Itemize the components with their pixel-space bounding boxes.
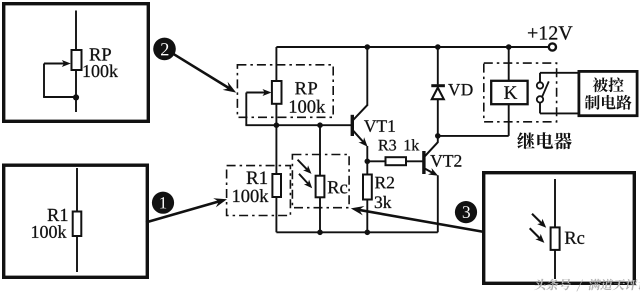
label VD (448, 84, 472, 96)
junction dot: Rc top at base rail (317, 122, 323, 128)
relay contact upper terminal (537, 82, 543, 88)
wire: rail down to RP top (275, 47, 277, 81)
wire: VT1 emitter down (366, 146, 368, 161)
light arrow 2 at Rc (inset) (530, 228, 545, 243)
label R3 1k (378, 139, 419, 150)
wire: node to R3 (367, 160, 385, 162)
label controlled circuit line 2 (Chinese) (585, 95, 632, 110)
resistor R1 (inset) body (73, 212, 82, 237)
label Rc (328, 181, 347, 193)
dashed box around relay (484, 63, 557, 122)
relay contact lower terminal (537, 96, 543, 102)
VT1 emitter diagonal with arrow (353, 131, 367, 147)
junction dot: VD/VT2/relay node (435, 133, 441, 139)
callout circle 3 (455, 201, 477, 223)
VT2 emitter diagonal with arrow (425, 168, 438, 176)
junction dot: wiper to lower lead (73, 94, 79, 100)
wire: RP inset vertical lead (75, 11, 77, 51)
label RP (295, 82, 317, 94)
relay contact lever (542, 81, 549, 96)
label R2 (375, 177, 394, 189)
diode VD cathode bar (431, 84, 445, 87)
wire: VD top lead (437, 47, 439, 84)
junction dot: relay coil at rail (506, 44, 512, 50)
wire: R3 to VT2 base (406, 160, 423, 162)
wire: node down to R2 (366, 161, 368, 174)
diode VD triangle (432, 88, 444, 100)
photoresistor Rc body (316, 176, 325, 198)
wire: R1 inset upper lead (76, 168, 78, 212)
wire: lower contact to load (540, 103, 578, 114)
junction dot: RP bottom at base rail (274, 122, 280, 128)
wire: RP wiper down (245, 93, 247, 126)
relay coil K box (491, 81, 527, 104)
dashed box around R1 (227, 166, 291, 216)
wire: RP inset lower lead (75, 70, 77, 112)
resistor R3 body (386, 157, 407, 165)
wire: R1 inset lower lead (76, 236, 78, 272)
wire: VD bottom lead (437, 99, 439, 136)
dashed box around RP (237, 65, 333, 118)
wire: VT1 base rail (245, 124, 351, 126)
wiper arrow of RP (inset) (44, 60, 71, 67)
label K (504, 86, 517, 98)
transistor VT1 base bar (351, 115, 354, 136)
callout arrow 3 to Rc dashed box (351, 206, 483, 232)
label Rc (inset) (565, 232, 584, 244)
inset box: Rc detail (484, 173, 635, 284)
wire: VT2 collector up (437, 136, 439, 142)
wire: wiper loop vertical (43, 64, 45, 98)
transistor VT2 base bar (422, 151, 425, 174)
callout circle 1 (152, 192, 174, 214)
light arrow 2 at Rc (299, 174, 312, 189)
label controlled circuit line 1 (Chinese) (593, 77, 624, 92)
junction dot: VT1 collector at rail (365, 44, 371, 50)
label VT2 (430, 155, 461, 167)
wire: rail down to relay coil top (508, 47, 510, 81)
label 3k (R2) (375, 196, 392, 208)
wire: down to R1 (275, 125, 277, 174)
junction dot: Rc at bottom rail (317, 230, 323, 236)
wire: R1 to bottom rail (275, 197, 277, 232)
resistor R1 body (272, 174, 281, 197)
watermark text (534, 279, 640, 292)
potentiometer RP body (272, 81, 282, 104)
label 100k (R1) (233, 189, 268, 202)
wire: VT1 base stub (350, 124, 352, 126)
light arrow 1 at Rc (298, 160, 312, 174)
wire: bottom rail (276, 231, 437, 233)
label 100k (inset RP) (84, 65, 118, 78)
VT2 collector diagonal (425, 142, 438, 156)
light arrow 1 at Rc (inset) (532, 214, 546, 228)
photoresistor Rc (inset) body (551, 227, 560, 250)
potentiometer RP (inset) body (72, 50, 82, 70)
wire: VT2 emitter down to rail (437, 175, 439, 232)
dashed box around Rc (292, 155, 349, 208)
wire: R2 to bottom rail (366, 200, 368, 233)
label 100k (inset R1) (32, 225, 66, 238)
junction dot: R3/R2 node (365, 159, 371, 165)
label relay (Chinese) (517, 132, 571, 149)
wire: +12V top rail (276, 46, 548, 48)
label R1 (inset) (48, 209, 68, 221)
VT1 collector diagonal (353, 105, 368, 120)
callout arrow 1 to R1 dashed box (146, 198, 227, 222)
wire: upper contact to load (540, 73, 578, 83)
callout circle 2 (153, 38, 176, 61)
junction dot: R2 at bottom rail (365, 230, 371, 236)
wire: VT1 collector up to rail (366, 47, 368, 105)
wire: Rc inset upper lead (554, 179, 556, 228)
inset box: RP potentiometer detail (4, 4, 149, 122)
label 100k (RP) (290, 100, 325, 113)
wiper arrow of RP (246, 89, 271, 96)
callout arrow 2 to RP dashed box (174, 54, 236, 92)
wire: RP bottom lead (275, 104, 277, 125)
wire: Rc to bottom rail (319, 197, 321, 232)
wire: down to Rc (319, 125, 321, 176)
wire: node to relay coil bottom (438, 135, 509, 137)
junction dot: VD at rail (435, 44, 441, 50)
label RP (inset) (90, 48, 111, 60)
label +12V (528, 26, 573, 40)
label VT1 (364, 120, 395, 132)
resistor R2 body (363, 175, 372, 200)
terminal: +12V open circle (549, 43, 556, 50)
inset box: R1 detail (4, 165, 148, 277)
label R1 (247, 171, 267, 184)
wire: Rc inset lower lead (554, 250, 556, 279)
wire: relay coil bottom up (508, 104, 510, 136)
controlled-circuit box (579, 71, 637, 115)
wire: wiper loop horizontal (43, 96, 76, 98)
